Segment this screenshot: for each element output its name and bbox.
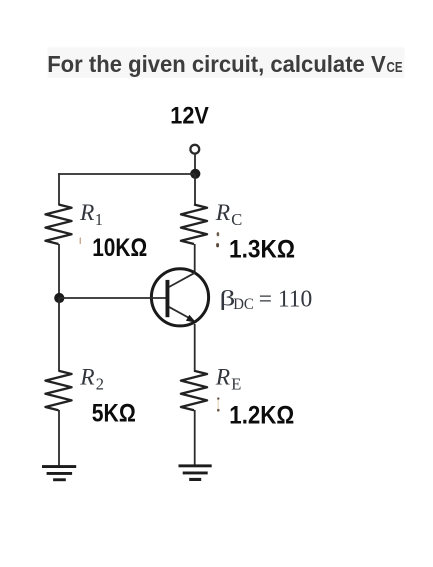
node: base divider node dot [54, 293, 64, 303]
svg-text:1.2KΩ: 1.2KΩ [229, 401, 294, 429]
resistor RE zigzag [181, 371, 207, 411]
svg-text:DC: DC [233, 296, 254, 313]
wire: top VCC rail horizontal [58, 173, 195, 175]
wire: R2 to ground [58, 410, 60, 466]
wire: emitter down to RE [194, 324, 196, 371]
svg-text:R: R [79, 200, 94, 226]
ground symbol (left, under R2) [42, 465, 76, 481]
wire: R1 to base node [58, 244, 60, 298]
svg-text:CE: CE [387, 59, 403, 76]
svg-text:1.3KΩ: 1.3KΩ [229, 236, 295, 264]
svg-text:C: C [231, 210, 242, 229]
terminal: 12V supply open circle [190, 145, 199, 154]
label beta_DC = 110 [220, 286, 236, 310]
svg-text:R: R [215, 364, 230, 390]
junction dot at VCC rail [190, 169, 200, 179]
title background band [48, 47, 405, 78]
transistor Q1: collector lead diagonal [169, 273, 195, 287]
resistor R2 zigzag [45, 371, 71, 411]
svg-text:= 110: = 110 [259, 286, 313, 313]
wire: left branch from rail down to R1 [58, 173, 60, 205]
svg-text:For the given circuit, calcula: For the given circuit, calculate V [47, 51, 386, 77]
svg-text:E: E [231, 374, 241, 393]
svg-text:10KΩ: 10KΩ [92, 234, 147, 262]
artifact tick marks near RC value [217, 232, 220, 236]
svg-text:R: R [79, 364, 94, 390]
wire: base node to R2 [58, 298, 60, 371]
transistor Q1: base bar [166, 280, 170, 317]
svg-text:12V: 12V [170, 103, 209, 130]
wire: base wire from node to transistor [59, 297, 166, 299]
svg-text:R: R [215, 200, 230, 226]
wire: supply stub from terminal to VCC junction [194, 154, 196, 174]
transistor Q1: body circle [151, 269, 208, 326]
wire: VCC junction down to RC [194, 174, 196, 205]
artifact tick left of 10KΩ value [80, 238, 81, 245]
resistor RC zigzag [181, 205, 207, 245]
resistor R1 zigzag [45, 205, 71, 245]
ground symbol (right, under RE) [179, 464, 212, 481]
wire: RE to ground [194, 410, 196, 466]
svg-text:2: 2 [96, 375, 104, 394]
svg-text:1: 1 [95, 210, 103, 229]
artifact tick marks near RE value [218, 398, 219, 411]
transistor Q1: emitter lead diagonal with arrow [169, 307, 191, 319]
wire: RC down to collector [194, 244, 196, 273]
svg-text:5KΩ: 5KΩ [92, 400, 136, 428]
